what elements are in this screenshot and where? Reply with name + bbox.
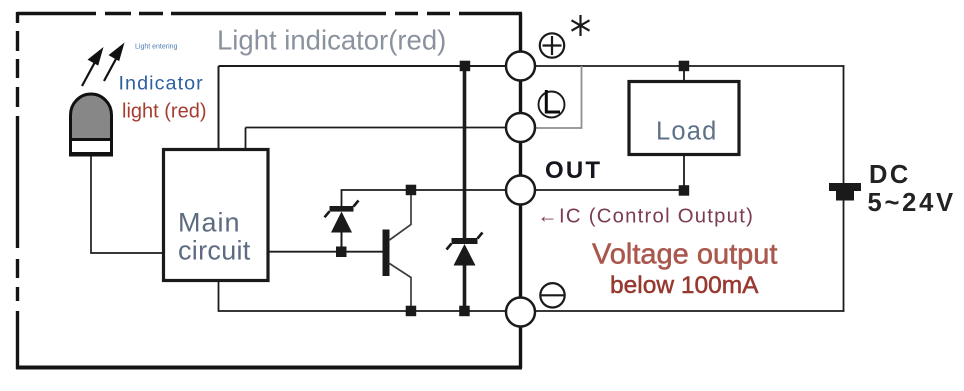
wire: gray branch from top rail to terminal 2 bbox=[535, 66, 582, 128]
wire: drop from second rail to main circuit bbox=[245, 128, 247, 150]
wire: load bottom connection bbox=[683, 155, 685, 190]
DC source symbol bbox=[829, 183, 861, 201]
load box bbox=[629, 82, 739, 155]
junction: load bottom to OUT rail bbox=[679, 185, 690, 196]
svg-text:circuit: circuit bbox=[178, 236, 251, 266]
junction: collector to OUT rail bbox=[406, 185, 417, 196]
wire: second rail (terminal 2 to main circuit) bbox=[246, 127, 521, 129]
svg-text:DC: DC bbox=[869, 161, 911, 189]
minus symbol bbox=[540, 283, 564, 307]
plus symbol bbox=[540, 33, 564, 57]
wire: OUT rail (terminal 3 to load bottom junction) bbox=[520, 189, 684, 191]
wire: thick branch from top rail to zener ZD2 bbox=[463, 66, 467, 240]
wire: main circuit output to transistor base bbox=[268, 251, 384, 253]
junction: load top to rail bbox=[679, 61, 690, 71]
svg-text:below 100mA: below 100mA bbox=[610, 272, 759, 299]
svg-text:Light indicator(red): Light indicator(red) bbox=[217, 25, 446, 56]
svg-text:5~24V: 5~24V bbox=[868, 189, 956, 217]
wire: zener ZD2 anode to bottom rail bbox=[463, 264, 467, 311]
light arrow 1 bbox=[82, 50, 102, 86]
wire: bottom rail (terminal 4 to DC source) bbox=[520, 310, 845, 312]
junction: zener ZD2 to bottom rail bbox=[459, 306, 470, 317]
svg-text:Voltage output: Voltage output bbox=[592, 239, 777, 271]
svg-text:Light entering: Light entering bbox=[135, 44, 178, 51]
wire: top rail (terminal 1 to internal circuit) bbox=[219, 65, 521, 67]
asterisk (note mark) bbox=[572, 15, 590, 36]
transistor Q1 bbox=[383, 195, 412, 306]
junction: zener ZD1 to base wire bbox=[336, 247, 347, 258]
wire: OUT rail (zener ZD1 corner to terminal 3) bbox=[342, 190, 521, 206]
svg-text:light (red): light (red) bbox=[122, 101, 206, 123]
svg-text:Indicator: Indicator bbox=[119, 73, 204, 95]
dashed enclosure bottom border bbox=[16, 366, 522, 370]
wire: DC source vertical bbox=[843, 66, 845, 311]
zener diode ZD2 bbox=[447, 233, 483, 266]
light arrow 2 bbox=[104, 46, 123, 82]
wire: top rail (terminal 1 to DC source) bbox=[520, 65, 845, 67]
svg-text:Main: Main bbox=[178, 208, 241, 238]
terminal 1 (+) bbox=[506, 52, 535, 81]
terminal 2 (L) bbox=[506, 113, 535, 142]
junction: emitter to bottom rail bbox=[406, 306, 417, 317]
wire: lamp lead down and right into main circuit bbox=[91, 155, 162, 253]
terminal bus / enclosure right border bbox=[519, 13, 522, 368]
main circuit box bbox=[164, 150, 269, 281]
svg-text:←IC (Control Output): ←IC (Control Output) bbox=[538, 206, 755, 228]
wire: drop from top rail to main circuit bbox=[218, 66, 220, 149]
L symbol (load terminal) bbox=[539, 90, 565, 118]
junction: thick branch to top rail bbox=[460, 61, 471, 71]
svg-text:Load: Load bbox=[656, 118, 718, 146]
indicator lamp bbox=[71, 94, 112, 155]
dashed enclosure left border bbox=[16, 12, 19, 369]
terminal 4 (-) bbox=[506, 298, 535, 327]
terminal 3 (OUT) bbox=[506, 176, 535, 205]
wire: bottom rail (main circuit to terminal 4) bbox=[219, 280, 521, 311]
svg-text:OUT: OUT bbox=[545, 157, 602, 184]
wire: load top connection bbox=[683, 66, 685, 81]
dashed enclosure top border bbox=[17, 12, 522, 15]
zener diode ZD1 bbox=[325, 201, 359, 253]
